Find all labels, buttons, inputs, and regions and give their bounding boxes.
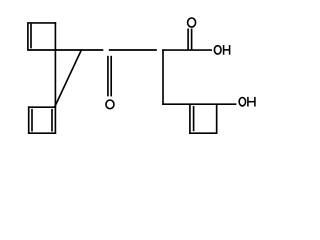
ring B inner double-bond line (left): [31, 109, 33, 132]
ring C right edge: [216, 104, 218, 134]
bond to carboxyl carbon and hydroxyl (top-right horizontal): [162, 49, 212, 51]
shared vertical bond (right edges of rings A and B): [54, 22, 56, 134]
ketone C=O double bond (two parallel lines): [108, 56, 111, 97]
ring B inner double-bond line (right): [51, 109, 53, 132]
ring B bottom edge: [28, 132, 56, 134]
hydroxyl OH label (bottom right): O glyph: [239, 98, 245, 106]
backbone bond left segment (includes ring A bottom edge): [27, 49, 103, 51]
ring C bottom edge: [189, 132, 217, 134]
ring A (top-left cyclobutene): left + top edges: [28, 23, 56, 50]
carboxyl OH label: H glyph: [224, 45, 230, 55]
alpha-carbon vertical bond (right chain): [162, 49, 164, 105]
carboxyl OH label: O glyph: [214, 46, 221, 54]
backbone bond middle segment (after gap): [109, 49, 157, 51]
bond chain to ring C hydroxyl (bottom-right horizontal): [162, 103, 236, 105]
ring B top edge: [28, 106, 56, 108]
carboxyl C=O double bond (two parallel lines): [188, 29, 192, 50]
ketone O atom label (drawn glyph): [106, 100, 114, 109]
hydroxyl OH label (bottom right): H glyph: [248, 97, 255, 107]
cyclopropane diagonal bond: [55, 50, 82, 107]
ring C inner double-bond line: [193, 106, 195, 131]
ring C (bottom-right cyclobutene): left edge: [189, 104, 191, 134]
carboxyl O atom label (drawn glyph): [188, 18, 196, 27]
ring B (bottom-left cyclobutadiene): left edge: [28, 106, 30, 133]
ring A inner double-bond line: [30, 24, 32, 49]
